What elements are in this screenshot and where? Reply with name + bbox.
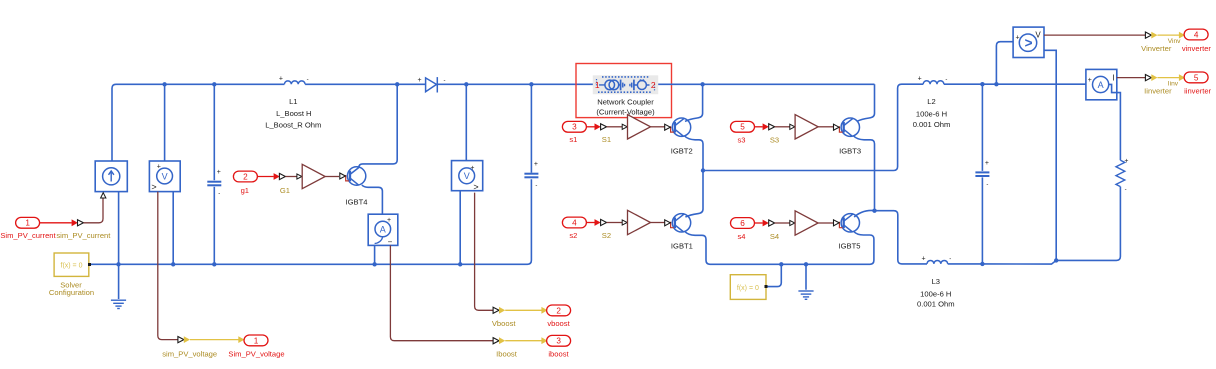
svg-text:IGBT1: IGBT1 <box>671 242 693 251</box>
svg-text:A: A <box>1098 80 1104 90</box>
transistor IGBT5 gate lead <box>839 222 842 228</box>
svg-text:L2: L2 <box>927 97 935 106</box>
svg-text:S4: S4 <box>770 232 779 241</box>
svg-text:-: - <box>1125 187 1127 193</box>
svg-text:6: 6 <box>740 219 745 228</box>
wire s4 red wire <box>755 222 763 224</box>
svg-text:Sim_PV_voltage: Sim_PV_voltage <box>228 349 284 358</box>
wire voltage sensor VM2 top lead <box>465 84 467 160</box>
svg-text:Network Coupler: Network Coupler <box>597 97 654 106</box>
wire S3 signal <box>775 126 790 128</box>
svg-text:s3: s3 <box>737 136 745 145</box>
open arrow s1 open arrow <box>601 124 607 130</box>
svg-text:5: 5 <box>1194 73 1199 82</box>
svg-text:s1: s1 <box>569 135 577 144</box>
wire IGBT1-IGBT5 emitter rail <box>685 232 874 265</box>
svg-text:iboost: iboost <box>548 349 569 358</box>
open arrow sim_PV_voltage open arrow <box>178 337 184 343</box>
gain S1 input arrow <box>622 124 627 129</box>
svg-text:L1: L1 <box>289 97 297 106</box>
arrow Iinverter yellow arrow <box>1151 74 1157 81</box>
port Outport 4 vinverter <box>1184 29 1208 40</box>
transistor IGBT4 gate lead <box>346 175 349 181</box>
transistor IGBT2 gate arrow <box>665 124 671 130</box>
gain S2 <box>628 210 651 234</box>
svg-text:+: + <box>157 163 161 170</box>
svg-text:+: + <box>1015 34 1019 41</box>
arrow Iboost yellow arrow <box>499 337 505 344</box>
wire capacitor C3 top lead <box>981 84 983 171</box>
wire current sensor AM1 negative lead <box>374 245 376 264</box>
wire top bus L1 to diode <box>305 83 426 85</box>
wire voltage sensor VM2 negative lead <box>459 190 461 264</box>
arrow Vinverter yellow arrow <box>1151 32 1157 39</box>
open arrow s2 open arrow <box>601 219 607 225</box>
svg-text:4: 4 <box>572 218 577 227</box>
gain S1 <box>628 115 651 139</box>
wire S1 to IGBT2 gate <box>651 126 665 128</box>
wire S4 signal <box>775 222 790 224</box>
open arrow port2 open arrow <box>279 173 285 179</box>
wire VM2 measurement to Vboost <box>475 193 494 311</box>
svg-text:IGBT2: IGBT2 <box>671 147 693 156</box>
svg-text:IGBT5: IGBT5 <box>839 242 861 251</box>
open arrow Vinverter open arrow <box>1145 32 1151 38</box>
current sensor AM3 block <box>1086 69 1117 99</box>
svg-text:1: 1 <box>25 219 30 228</box>
svg-text:-: - <box>218 191 220 197</box>
transistor IGBT1 gate lead <box>671 222 674 228</box>
svg-text:IGBT4: IGBT4 <box>346 198 368 207</box>
port Inport 1 Sim_PV_current <box>16 217 40 228</box>
svg-text:-: - <box>949 257 951 263</box>
port Inport 3 s1 <box>562 121 586 132</box>
transistor IGBT5 gate arrow <box>834 220 840 226</box>
port Inport 6 s4 <box>731 218 755 229</box>
junction bottom / C3 <box>980 262 984 266</box>
transistor IGBT3 <box>841 118 859 136</box>
svg-text:IGBT3: IGBT3 <box>839 147 861 156</box>
transistor IGBT1 gate arrow <box>665 220 671 226</box>
svg-text:0.001 Ohm: 0.001 Ohm <box>917 299 955 308</box>
svg-text:+: + <box>918 76 922 83</box>
junction top bus / IGBT2 <box>700 82 704 86</box>
svg-text:>: > <box>151 182 156 192</box>
ground ground left <box>111 300 126 308</box>
svg-text:Sim_PV_current: Sim_PV_current <box>0 231 56 240</box>
transistor IGBT5 <box>841 214 859 232</box>
wire s3 red wire <box>755 126 763 128</box>
gain G1 input arrow <box>297 174 302 179</box>
svg-text:L3: L3 <box>932 277 940 286</box>
wire voltage sensor VM3 neg lead <box>1037 43 1057 261</box>
arrow Vinverter yellow head <box>1179 32 1185 39</box>
svg-text:L_Boost H: L_Boost H <box>276 109 311 118</box>
svg-text:V: V <box>1035 30 1041 39</box>
open arrow Iboost open arrow <box>493 338 499 344</box>
open arrow s4 open arrow <box>769 220 775 226</box>
svg-text:+: + <box>217 169 221 176</box>
wire IGBT4 emitter lead <box>362 185 383 214</box>
gain S3 <box>795 115 818 139</box>
wire top bus coupler to IGBT3 <box>658 83 874 85</box>
svg-text:-: - <box>945 77 947 83</box>
svg-text:3: 3 <box>556 337 561 346</box>
current source control input arrow <box>101 193 106 198</box>
solver configuration block <box>54 253 91 276</box>
wire S4 to IGBT5 gate <box>818 222 833 224</box>
arrow sim_PV_voltage yellow head <box>238 336 244 343</box>
port Inport 4 s2 <box>562 217 586 228</box>
transistor IGBT4 gate arrow <box>340 173 346 179</box>
current sensor AM1 neg hook <box>375 237 383 244</box>
svg-text:2: 2 <box>243 172 248 181</box>
wire IGBT3 collector lead <box>857 84 875 121</box>
inductor L2 coil <box>923 81 944 84</box>
current sensor AM1 block <box>368 214 398 246</box>
open arrow Iinverter open arrow <box>1145 75 1151 81</box>
svg-text:−: − <box>388 237 393 246</box>
arrow Vboost yellow arrow <box>499 307 505 314</box>
resistor R1 <box>1116 160 1125 186</box>
svg-text:+: + <box>985 160 989 167</box>
wire ground2 drop <box>805 264 807 289</box>
wire L3 rail to resistor <box>948 191 1121 265</box>
gain S4 input arrow <box>790 220 795 225</box>
arrow port1 red arrow <box>72 219 78 226</box>
svg-text:f(x) = 0: f(x) = 0 <box>61 262 83 269</box>
voltage sensor VM3 block <box>1013 27 1044 57</box>
svg-text:A: A <box>380 224 386 234</box>
junction node A junction <box>701 168 705 172</box>
port Inport 2 g1 <box>233 171 257 182</box>
open arrow s3 open arrow <box>769 124 775 130</box>
capacitor C3 <box>975 172 989 176</box>
arrow s4 red arrow <box>763 220 769 227</box>
svg-text:3: 3 <box>572 123 577 132</box>
svg-text:+: + <box>1124 158 1128 165</box>
capacitor C2 <box>524 174 538 178</box>
wire capacitor C1 bottom lead <box>213 187 215 264</box>
inductor L1 coil <box>284 81 305 84</box>
wire Iboost yellow wire <box>505 340 542 342</box>
capacitor C1 <box>207 182 221 186</box>
wire Vinverter yellow wire <box>1158 34 1180 36</box>
wire S1 signal <box>607 126 623 128</box>
junction bottom rail / AM1 neg <box>372 262 376 266</box>
wire S3 to IGBT3 gate <box>818 126 833 128</box>
arrow s1 red arrow <box>595 123 601 130</box>
junction node B junction <box>872 209 876 213</box>
svg-text:s4: s4 <box>737 232 745 241</box>
arrow port2 red arrow <box>274 173 280 180</box>
junction top bus / C2 <box>529 82 533 86</box>
wire port2 to arrow <box>257 176 273 178</box>
junction bottom rail / VM1 neg <box>171 262 175 266</box>
svg-text:+: + <box>921 255 925 262</box>
svg-text:G1: G1 <box>280 186 290 195</box>
wire L2 to current sensor AM3 <box>944 83 1086 85</box>
svg-text:V: V <box>162 171 168 181</box>
svg-text:Configuration: Configuration <box>49 288 94 297</box>
wire top bus left of L1 <box>112 84 284 161</box>
wire IGBT3 emitter lead <box>854 136 875 211</box>
wire voltage sensor VM1 top lead <box>164 84 166 161</box>
arrow Iboost yellow head <box>541 337 547 344</box>
junction bottom rail / VM3 neg <box>1054 258 1058 262</box>
wire IGBT2 collector lead <box>685 84 703 121</box>
junction bottom rail / solver2 <box>779 262 783 266</box>
svg-text:2: 2 <box>556 306 561 315</box>
port Inport 5 s3 <box>731 121 755 132</box>
svg-text:0.001 Ohm: 0.001 Ohm <box>913 120 951 129</box>
transistor IGBT2 gate lead <box>671 126 674 132</box>
wire node B to L3 <box>875 211 928 264</box>
wire IGBT4 collector lead <box>359 84 397 167</box>
wire capacitor C3 bottom lead <box>981 177 983 264</box>
wire resistor bottom stub <box>1119 187 1121 191</box>
svg-text:+: + <box>279 76 283 83</box>
svg-text:-: - <box>986 182 988 188</box>
wire node A bus to L2 <box>703 84 923 170</box>
wire voltage sensor VM2 neg hook <box>460 184 467 191</box>
svg-text:S1: S1 <box>602 135 611 144</box>
svg-text:4: 4 <box>1194 30 1199 39</box>
ground ground middle <box>798 291 813 299</box>
svg-text:sim_PV_current: sim_PV_current <box>56 231 111 240</box>
svg-text:sim_PV_voltage: sim_PV_voltage <box>162 349 217 358</box>
voltage sensor VM1 block <box>149 161 180 192</box>
wire s1 red wire <box>586 126 594 128</box>
svg-text:+: + <box>387 217 391 224</box>
arrow sim_PV_voltage yellow arrow <box>184 336 190 343</box>
gain S3 input arrow <box>790 124 795 129</box>
transistor IGBT4 <box>347 167 365 185</box>
junction top / VM3 <box>994 82 998 86</box>
wire sim_PV_current signal <box>84 199 104 223</box>
junction bottom rail / C1 <box>212 262 216 266</box>
svg-text:5: 5 <box>740 123 745 132</box>
svg-text:+: + <box>470 165 474 172</box>
svg-text:L_Boost_R Ohm: L_Boost_R Ohm <box>265 121 321 130</box>
junction top bus / C1 <box>212 82 216 86</box>
wire voltage sensor VM1 negative lead <box>172 190 174 264</box>
svg-text:I: I <box>1112 73 1114 82</box>
wire current sensor AM3 neg lead to resistor <box>1109 84 1121 160</box>
svg-text:-: - <box>535 183 537 189</box>
wire VM1 measurement to sim_PV_voltage <box>158 192 178 340</box>
transistor IGBT1 <box>672 214 690 232</box>
svg-text:2: 2 <box>651 80 656 90</box>
wire capacitor C2 bottom lead + bottom rail left <box>119 179 532 264</box>
inductor L3 coil <box>927 260 948 263</box>
port Outport 3 iboost <box>547 335 571 346</box>
arrow s3 red arrow <box>763 123 769 130</box>
svg-text:>: > <box>473 182 478 192</box>
svg-text:+: + <box>1088 77 1092 84</box>
svg-text:iinverter: iinverter <box>1184 86 1211 95</box>
junction bottom rail / solver-ground <box>116 262 120 266</box>
svg-text:+: + <box>417 77 421 84</box>
svg-text:Vboost: Vboost <box>492 319 517 328</box>
svg-text:g1: g1 <box>241 186 249 195</box>
network coupler block <box>593 75 658 94</box>
svg-text:Iinverter: Iinverter <box>1144 86 1172 95</box>
transistor IGBT2 <box>672 118 690 136</box>
wire voltage sensor VM3 pos lead <box>996 42 1013 84</box>
open arrow port1 open arrow <box>78 220 84 226</box>
wire S2 signal <box>607 222 623 224</box>
svg-text:Iboost: Iboost <box>496 349 518 358</box>
wire VM3 measurement wire <box>1044 34 1145 36</box>
svg-text:100e-6 H: 100e-6 H <box>916 110 947 119</box>
arrow Vboost yellow head <box>541 307 547 314</box>
wire voltage sensor VM1 neg hook <box>165 184 174 191</box>
diode D1 <box>426 77 438 92</box>
wire Vboost yellow wire <box>505 309 542 311</box>
svg-text:S3: S3 <box>770 136 779 145</box>
wire left bus vertical to ground <box>118 192 120 299</box>
voltage sensor VM2 block <box>452 161 483 192</box>
svg-text:>: > <box>1025 36 1033 51</box>
wire AM1 measurement to Iboost <box>390 245 493 340</box>
junction top bus / VM2 <box>464 82 468 86</box>
port Outport 1 Sim_PV_voltage <box>244 335 268 346</box>
transistor IGBT3 gate arrow <box>834 124 840 130</box>
junction top bus / VM1 <box>162 82 166 86</box>
svg-text:-: - <box>307 77 309 83</box>
svg-text:-: - <box>444 78 446 84</box>
gain S2 input arrow <box>622 220 627 225</box>
arrow Iinverter yellow head <box>1179 74 1185 81</box>
wire G1 to IGBT4 gate <box>325 176 339 178</box>
controlled current source block <box>95 161 127 192</box>
wire Iinverter yellow wire <box>1158 77 1180 79</box>
wire AM3 measurement wire <box>1117 77 1146 79</box>
svg-text:1: 1 <box>595 80 600 90</box>
port Outport 2 vboost <box>547 305 571 316</box>
svg-text:vinverter: vinverter <box>1182 44 1212 53</box>
wire solver2 wire <box>766 264 781 286</box>
wire sim_PV_voltage yellow wire <box>190 339 239 341</box>
wire capacitor C1 top lead <box>213 84 215 180</box>
arrow s2 red arrow <box>595 219 601 226</box>
transistor IGBT3 gate lead <box>839 126 842 132</box>
gain S4 <box>795 211 818 235</box>
junction top / C3 <box>980 82 984 86</box>
solver configuration 2 block <box>730 275 767 300</box>
svg-text:s2: s2 <box>569 231 577 240</box>
junction top bus / IGBT4 <box>395 82 399 86</box>
wire IGBT1 collector lead <box>685 171 703 218</box>
svg-text:1: 1 <box>254 336 259 345</box>
svg-text:f(x) = 0: f(x) = 0 <box>737 285 759 292</box>
svg-text:+: + <box>534 161 538 168</box>
port Outport 5 iinverter <box>1184 72 1208 83</box>
open arrow Vboost open arrow <box>493 307 499 313</box>
gain G1 <box>302 164 325 188</box>
svg-text:Vinverter: Vinverter <box>1141 44 1172 53</box>
junction bottom rail / VM2 neg <box>458 262 462 266</box>
network coupler annotation rect <box>576 64 672 118</box>
svg-text:100e-6 H: 100e-6 H <box>920 290 951 299</box>
svg-text:(Current-Voltage): (Current-Voltage) <box>596 107 655 116</box>
junction bottom rail / ground2 <box>804 262 808 266</box>
wire port1 red wire <box>40 222 72 224</box>
wire capacitor C2 top lead <box>530 84 532 172</box>
wire IGBT2 emitter lead <box>685 136 703 171</box>
wire s2 red wire <box>586 222 594 224</box>
wire S2 to IGBT1 gate <box>651 222 665 224</box>
wire IGBT5 collector lead <box>854 210 874 217</box>
svg-text:vboost: vboost <box>547 319 570 328</box>
wire g1 signal <box>285 176 297 178</box>
wire top bus diode to coupler <box>438 83 593 85</box>
svg-text:S2: S2 <box>602 231 611 240</box>
svg-text:V: V <box>464 171 470 181</box>
wire solver config wire <box>91 263 119 265</box>
